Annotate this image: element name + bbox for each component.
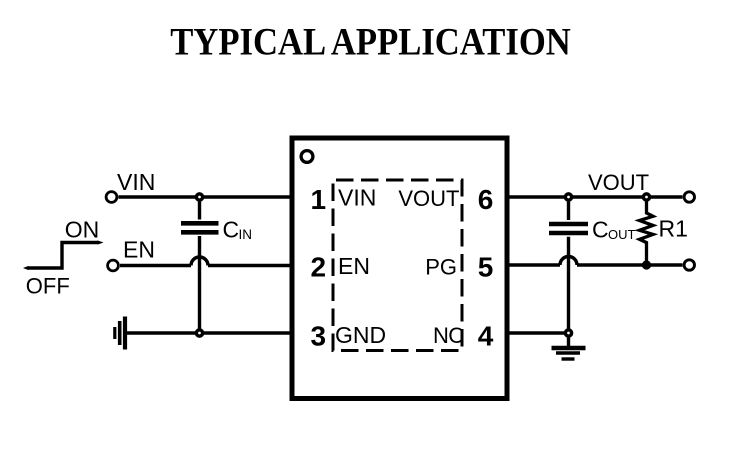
svg-text:C: C <box>223 217 240 243</box>
junction node R1 top <box>643 194 649 200</box>
wire VOUT rail <box>506 195 683 198</box>
svg-text:6: 6 <box>478 184 494 215</box>
svg-text:OFF: OFF <box>26 274 70 299</box>
ground symbol right <box>552 348 586 359</box>
svg-text:4: 4 <box>478 321 494 352</box>
wire CIN vertical lower <box>198 236 201 333</box>
junction node R1 bottom (solid) <box>642 260 651 269</box>
svg-text:C: C <box>592 217 609 243</box>
wire PG right of hop <box>577 263 683 266</box>
svg-text:2: 2 <box>311 251 327 282</box>
junction node B (GND / CIN) <box>196 330 202 336</box>
enable step waveform <box>23 240 104 270</box>
terminal VOUT top <box>684 192 694 202</box>
wire COUT to ground stub <box>567 333 570 346</box>
svg-text:GND: GND <box>335 322 386 348</box>
svg-text:1: 1 <box>311 184 327 215</box>
pin 1 indicator <box>301 151 313 163</box>
junction node C (VOUT / COUT) <box>565 194 571 200</box>
svg-text:TYPICAL APPLICATION: TYPICAL APPLICATION <box>170 20 571 64</box>
svg-text:3: 3 <box>311 321 327 352</box>
wire NC pin4 <box>506 331 569 334</box>
wire COUT vertical lower <box>567 237 570 333</box>
resistor R1 <box>640 197 654 265</box>
svg-text:IN: IN <box>239 227 253 242</box>
wire CIN vertical <box>198 197 201 220</box>
junction node A (VIN / CIN) <box>196 194 202 200</box>
terminal PG output <box>684 260 694 270</box>
ground symbol left <box>115 317 125 350</box>
label C_IN <box>223 217 253 243</box>
svg-text:VOUT: VOUT <box>588 170 649 195</box>
wire COUT vertical upper <box>567 197 570 220</box>
wire hop PG over COUT <box>560 257 577 266</box>
capacitor C_IN <box>181 223 219 232</box>
svg-text:EN: EN <box>338 253 370 279</box>
svg-text:EN: EN <box>123 236 155 262</box>
svg-text:N: N <box>433 323 449 348</box>
svg-text:C: C <box>448 323 464 348</box>
junction node D (NC / COUT / GND) <box>565 330 571 336</box>
title TYPICAL APPLICATION <box>170 20 571 64</box>
svg-text:VIN: VIN <box>117 169 155 195</box>
terminal VIN input <box>106 192 117 203</box>
wire hop EN over CIN <box>191 257 208 266</box>
terminal EN input <box>108 260 119 271</box>
IC inner dashed outline <box>333 180 462 351</box>
svg-text:5: 5 <box>478 251 494 282</box>
wire PG left of hop <box>506 263 560 266</box>
wire VIN input <box>119 195 291 198</box>
svg-text:R1: R1 <box>659 216 688 242</box>
svg-text:VIN: VIN <box>338 185 376 211</box>
svg-text:OUT: OUT <box>608 227 636 242</box>
capacitor C_OUT <box>549 224 588 233</box>
wire GND rail left <box>127 331 290 334</box>
pin label NC (reversed C) <box>433 323 464 348</box>
svg-text:PG: PG <box>425 255 457 280</box>
svg-text:VOUT: VOUT <box>398 186 459 211</box>
wire EN input right of hop <box>208 264 290 267</box>
svg-text:ON: ON <box>65 216 100 242</box>
wire EN input left of hop <box>120 264 191 267</box>
label C_OUT <box>592 217 636 243</box>
IC U1 body <box>292 138 507 399</box>
